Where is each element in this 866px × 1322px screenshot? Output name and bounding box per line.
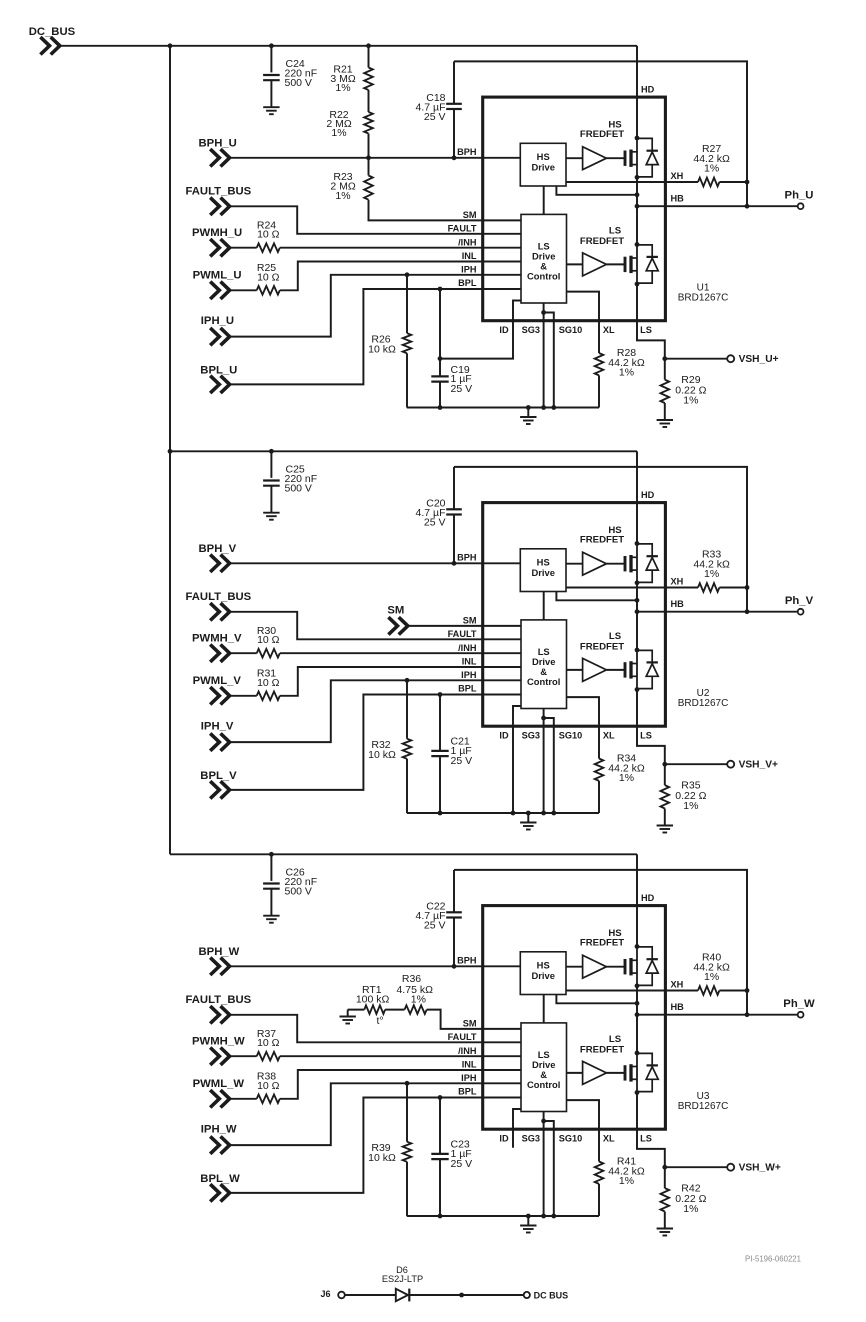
junction DC_BUS / left bus [168, 43, 173, 48]
net FAULT_BUS input chevron [210, 1006, 229, 1023]
capacitor C18 4.7 uF 25 V [453, 61, 455, 103]
junction HS drain [635, 541, 640, 546]
junction LS drain [635, 648, 640, 653]
wire buffer to LS gate [606, 263, 624, 265]
junction DC_BUS / C26 [269, 852, 274, 857]
terminal DC BUS [524, 1292, 530, 1298]
wire buffer to LS gate [606, 669, 624, 671]
wire HS gate drive [566, 563, 583, 565]
svg-text:25 V: 25 V [451, 755, 473, 767]
resistor R23 2 MOhm 1% [368, 158, 370, 176]
diode LS body diode [637, 245, 652, 257]
svg-text:HB: HB [671, 194, 685, 204]
svg-text:1%: 1% [335, 190, 350, 202]
junction XH / bootstrap loop [745, 988, 750, 993]
junction VSH_U+ node [662, 356, 667, 361]
svg-text:t°: t° [376, 1015, 383, 1027]
svg-text:LS: LS [640, 325, 652, 335]
wire HS source to LS drain [636, 583, 638, 650]
wire BPL_W to BPL pin [231, 1098, 521, 1193]
svg-text:HD: HD [641, 85, 655, 95]
net IPH_W input chevron [210, 1136, 229, 1153]
svg-text:VSH_V+: VSH_V+ [739, 760, 778, 771]
wire R24 to /INH pin [280, 247, 521, 249]
wire bootstrap top loop to XH/HB [454, 61, 747, 206]
wire VSH_W+ sense [665, 1166, 727, 1168]
resistor R25 10 Ohm [231, 289, 257, 291]
svg-text:IPH_U: IPH_U [201, 315, 234, 327]
wire SG3 pin [543, 709, 545, 814]
svg-text:IPH: IPH [461, 265, 477, 275]
svg-text:DC BUS: DC BUS [534, 1290, 569, 1300]
svg-text:Drive: Drive [531, 162, 554, 173]
wire HS Drive sense to switch node [556, 995, 637, 1004]
net BPH_W input chevron [210, 958, 229, 975]
wire ID pin [513, 706, 521, 813]
svg-text:500 V: 500 V [285, 77, 312, 89]
junction SG3 / SG10 stub [541, 716, 546, 721]
wire SM input to SM pin [409, 625, 521, 627]
svg-text:10 kΩ: 10 kΩ [368, 749, 396, 761]
terminal Ph_U [798, 203, 804, 209]
block LS Drive &amp; Control [521, 1023, 567, 1112]
capacitor C25 220 nF 500 V [270, 451, 272, 478]
junction LS source [635, 687, 640, 692]
ground below C25 [263, 512, 279, 514]
wire BPL_V to BPL pin [231, 695, 521, 790]
svg-text:XH: XH [671, 171, 684, 181]
diode HS body diode [637, 947, 652, 959]
wire XL pin / resistor R41 44.2 kOhm 1% [567, 1100, 600, 1161]
diode HS body diode [637, 544, 652, 556]
svg-text:BRD1267C: BRD1267C [678, 1101, 729, 1112]
junction HB / bootstrap loop [745, 204, 750, 209]
transistor LS FREDFET symbol [624, 1065, 627, 1080]
svg-text:FAULT: FAULT [448, 1032, 477, 1042]
buffer HS driver triangle [583, 955, 607, 978]
block HS Drive [520, 143, 566, 186]
ground below R35 [657, 825, 673, 827]
svg-text:Control: Control [527, 676, 560, 687]
svg-text:ID: ID [499, 731, 509, 741]
svg-text:1%: 1% [683, 1203, 698, 1215]
svg-text:IPH_V: IPH_V [201, 721, 234, 733]
svg-text:BPH: BPH [457, 147, 477, 157]
svg-text:Ph_V: Ph_V [785, 595, 814, 607]
diode HS body diode [637, 138, 652, 150]
svg-text:HB: HB [671, 1002, 685, 1012]
resistor R24 10 Ohm [231, 247, 257, 249]
junction SG3 / ground rail [541, 811, 546, 816]
buffer LS driver triangle [583, 253, 607, 276]
svg-text:100 kΩ: 100 kΩ [356, 994, 390, 1006]
junction SG3 / ground rail [541, 405, 546, 410]
svg-text:XL: XL [603, 1134, 615, 1144]
svg-text:VSH_W+: VSH_W+ [739, 1163, 781, 1174]
junction HS drain [635, 136, 640, 141]
wire IPH_U to IPH pin [231, 275, 521, 337]
junction R26 / IPH wire [405, 272, 410, 277]
wire local ground rail [407, 812, 599, 814]
wire R38 to INL pin [280, 1070, 521, 1099]
capacitor C26 220 nF 500 V [270, 854, 272, 881]
capacitor C19 1 uF 25 V [439, 289, 441, 376]
wire XL pin / resistor R28 44.2 kOhm 1% [567, 292, 600, 353]
svg-text:BPL: BPL [458, 1087, 477, 1097]
junction VSH_W+ node [662, 1165, 667, 1170]
wire buffer to HS gate [606, 563, 624, 565]
junction HS source [635, 983, 640, 988]
svg-text:/INH: /INH [458, 1046, 477, 1056]
wire ID pin [513, 1109, 521, 1148]
wire DC_BUS top rail section U [61, 45, 637, 47]
junction C22 / BPH wire [452, 964, 457, 969]
junction DC_BUS / C24 [269, 43, 274, 48]
wire HD feed from DC_BUS rail [636, 451, 638, 543]
junction HS source [635, 175, 640, 180]
wire BPH_W to BPH pin [231, 965, 521, 967]
svg-text:25 V: 25 V [424, 919, 446, 931]
svg-text:Control: Control [527, 1079, 560, 1090]
net DC_BUS input chevron [40, 37, 59, 54]
svg-text:Ph_U: Ph_U [785, 190, 814, 202]
svg-text:1%: 1% [411, 994, 426, 1006]
svg-text:HS: HS [537, 960, 550, 971]
wire R30 to /INH pin [280, 652, 521, 654]
wire HS gate drive [566, 966, 583, 968]
diode D6 ES2J-LTP [396, 1289, 408, 1301]
svg-text:1%: 1% [619, 367, 634, 379]
wire local ground rail [407, 1215, 599, 1217]
resistor R27 44.2 kOhm 1% on XH [566, 181, 698, 183]
junction ID / C19 branch [438, 356, 443, 361]
svg-text:HD: HD [641, 893, 655, 903]
net FAULT_BUS input chevron [210, 198, 229, 215]
net FAULT_BUS input chevron [210, 603, 229, 620]
ground symbol on rail [527, 1216, 529, 1226]
capacitor C24 220 nF 500 V [270, 46, 272, 73]
svg-text:SG3: SG3 [522, 1134, 540, 1144]
resistor R42 0.22 Ohm 1% shunt [661, 1188, 670, 1211]
svg-text:FAULT_BUS: FAULT_BUS [186, 186, 252, 198]
svg-text:PWMH_V: PWMH_V [192, 633, 242, 645]
svg-text:INL: INL [462, 657, 477, 667]
wire VSH_V+ sense [665, 763, 727, 765]
junction HS source [635, 580, 640, 585]
resistor R31 10 Ohm [231, 695, 257, 697]
wire HS Drive sense to switch node [556, 592, 637, 601]
wire J6 to D6 anode [345, 1294, 396, 1296]
svg-text:/INH: /INH [458, 643, 477, 653]
junction sense / switch node [635, 598, 640, 603]
junction SG3 / SG10 stub [541, 1119, 546, 1124]
svg-text:FAULT: FAULT [448, 629, 477, 639]
wire BPL_U to BPL pin [231, 289, 521, 384]
junction C21 / BPL wire [438, 692, 443, 697]
wire LS pin to shunt [637, 690, 665, 786]
junction SG10 / ground rail [551, 405, 556, 410]
wire FAULT_BUS to FAULT pin [231, 206, 521, 234]
net SM input chevron [388, 617, 407, 634]
wire SG3 pin [543, 303, 545, 408]
svg-text:FAULT_BUS: FAULT_BUS [186, 591, 252, 603]
junction divider / BPH wire [366, 155, 371, 160]
svg-text:Drive: Drive [531, 567, 554, 578]
buffer HS driver triangle [583, 147, 607, 170]
svg-text:SM: SM [463, 210, 477, 220]
svg-text:1%: 1% [331, 127, 346, 139]
svg-text:INL: INL [462, 251, 477, 261]
resistor R39 10 kOhm [406, 1083, 408, 1141]
svg-text:1%: 1% [619, 772, 634, 784]
svg-text:IPH: IPH [461, 670, 477, 680]
junction HS drain [635, 944, 640, 949]
net PWMH_W input chevron [210, 1048, 229, 1065]
transistor HS FREDFET symbol [624, 959, 627, 974]
terminal VSH_W+ [727, 1164, 734, 1171]
svg-text:BPL_U: BPL_U [200, 364, 237, 376]
wire HS Drive to LS Drive link [543, 995, 545, 1023]
svg-text:SG3: SG3 [522, 325, 540, 335]
net BPH_V input chevron [210, 555, 229, 572]
svg-text:XL: XL [603, 325, 615, 335]
svg-text:SM: SM [463, 616, 477, 626]
net IPH_V input chevron [210, 733, 229, 750]
junction R32 / IPH wire [405, 678, 410, 683]
capacitor C21 1 uF 25 V [439, 695, 441, 751]
svg-text:IPH: IPH [461, 1073, 477, 1083]
junction sense / switch node [635, 192, 640, 197]
junction XH / bootstrap loop [745, 180, 750, 185]
junction XH / bootstrap loop [745, 585, 750, 590]
wire SG10 pin [544, 313, 554, 408]
wire FAULT_BUS to FAULT pin [231, 1015, 521, 1043]
junction rail / ground tap [526, 811, 531, 816]
net PWMH_U input chevron [210, 239, 229, 256]
wire XL pin / resistor R34 44.2 kOhm 1% [567, 697, 600, 758]
svg-text:FREDFET: FREDFET [580, 236, 624, 247]
buffer HS driver triangle [583, 552, 607, 575]
svg-text:BPH_V: BPH_V [199, 543, 237, 555]
svg-text:25 V: 25 V [451, 1158, 473, 1170]
wire local ground rail [407, 407, 599, 409]
svg-text:BPH_W: BPH_W [199, 946, 240, 958]
junction C18 / BPH wire [452, 155, 457, 160]
svg-text:SG10: SG10 [559, 1134, 583, 1144]
svg-text:25 V: 25 V [424, 516, 446, 528]
svg-text:FREDFET: FREDFET [580, 938, 624, 949]
svg-text:Ph_W: Ph_W [783, 998, 815, 1010]
buffer LS driver triangle [583, 1061, 607, 1084]
svg-text:SG10: SG10 [559, 731, 583, 741]
junction HB / bootstrap loop [745, 1012, 750, 1017]
net PWML_U input chevron [210, 282, 229, 299]
svg-text:Control: Control [527, 271, 560, 282]
terminal Ph_W [798, 1012, 804, 1018]
wire D6 cathode to DC BUS terminal [409, 1294, 524, 1296]
ground symbol on rail [527, 813, 529, 823]
wire HS Drive to LS Drive link [543, 186, 545, 214]
wire BPH_U to BPH pin [231, 157, 521, 159]
svg-text:/INH: /INH [458, 237, 477, 247]
svg-text:BPH_U: BPH_U [199, 138, 237, 150]
svg-text:PWML_W: PWML_W [193, 1078, 245, 1090]
wire SG3 pin [543, 1112, 545, 1217]
svg-text:Drive: Drive [531, 970, 554, 981]
junction DC_BUS / C25 [269, 449, 274, 454]
wire VSH_U+ sense [665, 358, 727, 360]
svg-text:1%: 1% [335, 82, 350, 94]
wire HS source to LS drain [636, 177, 638, 244]
svg-text:BPH: BPH [457, 553, 477, 563]
buffer LS driver triangle [583, 658, 607, 681]
wire HS gate drive [566, 157, 583, 159]
terminal VSH_V+ [727, 761, 734, 768]
wire R31 to INL pin [280, 667, 521, 696]
ground below C26 [263, 915, 279, 917]
junction LS source [635, 282, 640, 287]
ground below R42 [657, 1228, 673, 1230]
capacitor C22 4.7 uF 25 V [453, 870, 455, 912]
diode LS body diode [637, 650, 652, 662]
svg-text:FREDFET: FREDFET [580, 535, 624, 546]
wire HS Drive to LS Drive link [543, 592, 545, 620]
terminal VSH_U+ [727, 355, 734, 362]
svg-text:1%: 1% [704, 971, 719, 983]
junction DC_BUS / left bus [168, 449, 173, 454]
block HS Drive [520, 952, 566, 995]
svg-text:PWML_U: PWML_U [193, 270, 242, 282]
junction LS drain [635, 1051, 640, 1056]
svg-text:ID: ID [499, 325, 509, 335]
junction SG10 / ground rail [551, 811, 556, 816]
diode LS body diode [637, 1053, 652, 1065]
junction C23 / BPL wire [438, 1095, 443, 1100]
svg-text:25 V: 25 V [424, 111, 446, 123]
ground at RT1 [347, 1010, 349, 1017]
svg-text:10 Ω: 10 Ω [257, 1037, 280, 1049]
wire LS gate drive [567, 263, 583, 265]
svg-text:ID: ID [499, 1134, 509, 1144]
resistor R40 44.2 kOhm 1% on XH [566, 990, 698, 992]
wire R23 to SM pin [369, 200, 522, 221]
svg-text:BRD1267C: BRD1267C [678, 293, 729, 304]
junction HB / bootstrap loop [745, 609, 750, 614]
wire buffer to LS gate [606, 1072, 624, 1074]
transistor LS FREDFET symbol [624, 662, 627, 677]
junction rail / ground tap [526, 1214, 531, 1219]
wire R22 to BPH node [368, 134, 370, 158]
resistor R21 3 MOhm 1% [368, 46, 370, 68]
wire HD feed from DC_BUS rail [636, 46, 638, 138]
wire HS source to LS drain [636, 986, 638, 1053]
junction LS drain [635, 242, 640, 247]
svg-text:BPH: BPH [457, 956, 477, 966]
wire DC_BUS top rail section V [170, 450, 637, 452]
svg-text:10 Ω: 10 Ω [257, 229, 280, 241]
wire buffer to HS gate [606, 966, 624, 968]
svg-text:XL: XL [603, 731, 615, 741]
junction SG10 / ground rail [551, 1214, 556, 1219]
resistor R30 10 Ohm [231, 652, 257, 654]
net PWMH_V input chevron [210, 645, 229, 662]
svg-text:HS: HS [537, 557, 550, 568]
svg-text:FREDFET: FREDFET [580, 129, 624, 140]
op-amp-driver IC U2 BRD1267C outline [483, 503, 666, 727]
wire R37 to /INH pin [280, 1055, 521, 1057]
svg-text:SM: SM [387, 605, 404, 617]
transistor HS FREDFET symbol [624, 151, 627, 166]
svg-text:FREDFET: FREDFET [580, 641, 624, 652]
wire HB to Ph_V [637, 611, 798, 613]
svg-text:1%: 1% [619, 1175, 634, 1187]
net PWML_V input chevron [210, 687, 229, 704]
wire LS pin to shunt [637, 1093, 665, 1189]
svg-text:IPH_W: IPH_W [201, 1124, 237, 1136]
svg-text:1%: 1% [683, 395, 698, 407]
op-amp-driver IC U3 BRD1267C outline [483, 906, 666, 1130]
svg-text:BPL_V: BPL_V [200, 770, 237, 782]
net IPH_U input chevron [210, 328, 229, 345]
svg-text:10 Ω: 10 Ω [257, 634, 280, 646]
junction DC_BUS / R21 [366, 43, 371, 48]
wire LS gate drive [567, 1072, 583, 1074]
svg-text:10 Ω: 10 Ω [257, 677, 280, 689]
net PWML_W input chevron [210, 1090, 229, 1107]
resistor R33 44.2 kOhm 1% on XH [566, 587, 698, 589]
wire HB to Ph_U [637, 205, 798, 207]
svg-text:LS: LS [640, 1134, 652, 1144]
svg-text:J6: J6 [320, 1289, 330, 1299]
junction HB / switch node [635, 609, 640, 614]
svg-text:DC_BUS: DC_BUS [29, 26, 76, 38]
capacitor C23 1 uF 25 V [439, 1098, 441, 1154]
wire BPH_V to BPH pin [231, 562, 521, 564]
op-amp-driver IC U1 BRD1267C outline [483, 97, 666, 321]
svg-text:SG3: SG3 [522, 731, 540, 741]
transistor LS FREDFET symbol [624, 257, 627, 272]
junction HB / switch node [635, 1012, 640, 1017]
svg-text:XH: XH [671, 980, 684, 990]
svg-text:SG10: SG10 [559, 325, 583, 335]
svg-text:HB: HB [671, 599, 685, 609]
wire LS gate drive [567, 669, 583, 671]
ground below R29 [657, 419, 673, 421]
svg-text:BPL_W: BPL_W [200, 1173, 240, 1185]
junction sense / switch node [635, 1001, 640, 1006]
net BPL_U input chevron [210, 376, 229, 393]
wire HS Drive sense to switch node [556, 186, 637, 195]
svg-text:PWMH_U: PWMH_U [192, 227, 242, 239]
net BPL_V input chevron [210, 781, 229, 798]
junction C21 / ground rail [438, 811, 443, 816]
junction ID / ground rail [511, 811, 516, 816]
wire SG10 pin [544, 718, 554, 813]
ground symbol on rail [527, 408, 529, 418]
svg-text:ES2J-LTP: ES2J-LTP [382, 1274, 423, 1284]
wire R25 to INL pin [280, 262, 521, 291]
junction rail / ground tap [526, 405, 531, 410]
wire DC_BUS top rail section W [170, 853, 637, 855]
junction SG3 / ground rail [541, 1214, 546, 1219]
wire IPH_W to IPH pin [231, 1083, 521, 1145]
junction C19 / ground rail [438, 405, 443, 410]
junction C19 / BPL wire [438, 287, 443, 292]
wire DC_BUS left bus vertical [169, 46, 171, 855]
svg-text:PI-5196-060221: PI-5196-060221 [745, 1255, 801, 1264]
svg-text:25 V: 25 V [451, 383, 473, 395]
net BPL_W input chevron [210, 1184, 229, 1201]
